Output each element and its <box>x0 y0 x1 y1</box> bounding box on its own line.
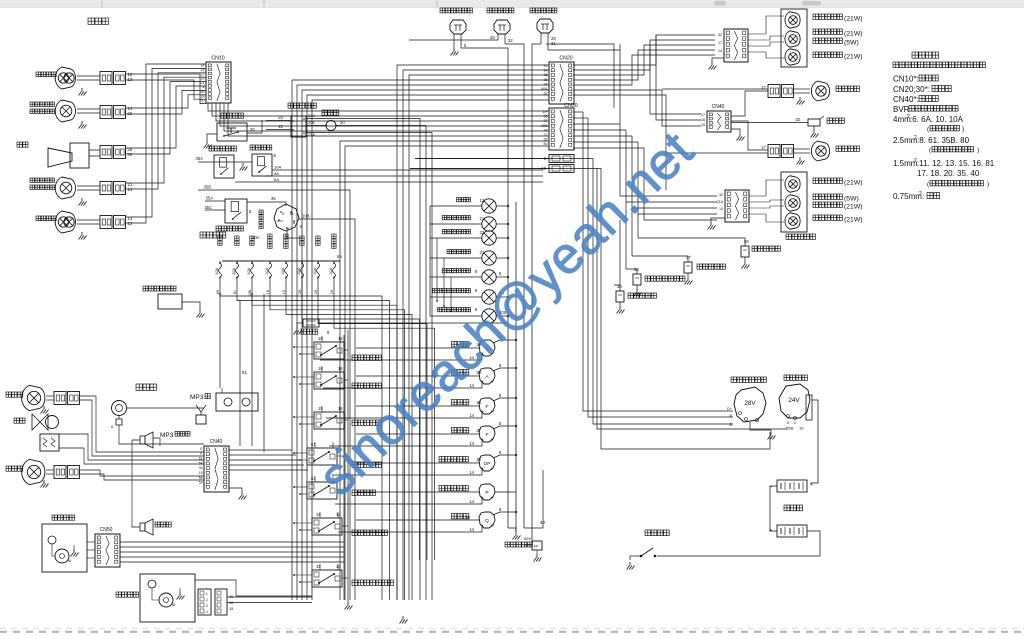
svg-text:61: 61 <box>233 290 237 294</box>
label left-front-headlamp <box>36 216 56 221</box>
gauge 6 <box>479 484 495 500</box>
wire 35 relay to ignition <box>247 196 286 206</box>
svg-text:38: 38 <box>476 457 481 462</box>
wire horn-button-30 <box>247 120 262 133</box>
lamp left-front-headlamp <box>55 211 100 233</box>
connector work-bottom <box>54 466 80 479</box>
wire number gauge 1 <box>476 342 481 347</box>
svg-text:31: 31 <box>551 41 556 46</box>
svg-text:14: 14 <box>338 366 343 371</box>
wire numbers switch 2 <box>318 366 343 371</box>
svg-text:61: 61 <box>311 442 316 447</box>
svg-text:6A: 6A <box>274 177 279 182</box>
fan <box>32 414 59 430</box>
svg-text:15: 15 <box>318 406 323 411</box>
wire fuse rail <box>222 254 342 261</box>
pin numbers 21/14 <box>128 182 133 192</box>
air pressure alarm <box>524 541 542 550</box>
svg-text:14: 14 <box>719 207 723 211</box>
pin numbers 12/13 <box>128 72 133 82</box>
label generator <box>731 377 766 382</box>
fan resistor <box>40 434 59 451</box>
label switch 4 <box>352 462 381 467</box>
svg-text:28V: 28V <box>744 400 756 407</box>
label rear-wiper <box>116 592 139 597</box>
svg-text:28: 28 <box>490 35 495 40</box>
CN40r pin numbers <box>701 113 705 127</box>
svg-text:61: 61 <box>242 370 248 375</box>
svg-text:14: 14 <box>544 69 548 73</box>
label key-switch <box>259 210 263 229</box>
indicator lamp 2 <box>482 217 496 231</box>
wire 10A row <box>272 165 543 171</box>
label work-lamp-top <box>6 392 23 397</box>
fuses <box>215 261 336 297</box>
ground right-front-turn <box>79 121 87 129</box>
svg-text:4: 4 <box>206 610 208 614</box>
wire number gauge 2 <box>476 370 481 375</box>
svg-text:ACC: ACC <box>277 219 284 223</box>
svg-text:54: 54 <box>199 476 203 480</box>
svg-text:17: 17 <box>761 145 766 150</box>
wire bundle rear wiper to switch <box>195 580 312 603</box>
wire relay row <box>198 161 252 163</box>
left-rear combo box <box>781 172 807 232</box>
label gauge 6 <box>439 486 468 491</box>
cigar lighter <box>303 319 319 327</box>
svg-text:+: + <box>769 528 772 534</box>
svg-text:CN50: CN50 <box>100 527 113 533</box>
label electronic-ground-switch <box>143 286 176 291</box>
svg-text:20A: 20A <box>247 268 251 275</box>
label indicator 3 <box>442 230 470 234</box>
svg-text:CN40: CN40 <box>712 104 725 110</box>
technical notes text <box>893 52 995 201</box>
speaker left <box>140 519 153 535</box>
right-rear combo box <box>781 9 807 67</box>
sensor fuel <box>614 284 625 314</box>
svg-text:17: 17 <box>701 113 705 117</box>
wire number gauge 3 <box>476 400 481 405</box>
label 8 charge <box>475 288 478 293</box>
svg-text:15: 15 <box>199 471 203 475</box>
flasher <box>325 121 337 131</box>
ground horn-button <box>204 141 212 149</box>
ground switch column <box>345 602 353 610</box>
pin numbers 28/30 <box>128 147 133 157</box>
svg-text:31: 31 <box>544 64 548 68</box>
label horn <box>17 142 28 147</box>
svg-text:38: 38 <box>544 128 548 132</box>
label work-lamp-bottom <box>6 466 23 471</box>
label left-rear-combo <box>786 234 815 239</box>
svg-text:16: 16 <box>229 601 233 605</box>
wire 35A mid <box>205 196 225 202</box>
connector CN40-cab <box>204 439 229 492</box>
lamp work-bottom <box>22 459 54 484</box>
svg-text::8. 61. 35B. 80: :8. 61. 35B. 80 <box>917 136 970 145</box>
lamp right-front-turn/width <box>55 100 100 122</box>
switch mid 7 <box>312 570 342 587</box>
label 8 neutral <box>249 209 252 214</box>
svg-text:KP: KP <box>534 545 539 549</box>
label MP3 <box>190 394 210 402</box>
lamp left-rear-width <box>785 195 800 212</box>
label fuse-box <box>200 232 226 238</box>
bottom page edge dashes <box>0 629 1024 632</box>
connector right-rear-headlamp <box>768 85 794 98</box>
svg-text:16: 16 <box>701 118 705 122</box>
indicator lamp 6 <box>482 290 496 304</box>
svg-text:35B: 35B <box>204 185 212 190</box>
label 40S at airpressure indicator <box>499 310 507 315</box>
svg-text:15A: 15A <box>297 268 301 275</box>
label battery <box>784 505 803 511</box>
wire CN40r to right headlamp <box>731 91 768 116</box>
pin labels right-rear conn <box>718 33 722 53</box>
wire number indicator 1 <box>480 198 485 203</box>
fuse name labels <box>218 234 336 248</box>
ground alarm <box>534 550 542 562</box>
wire numbers switch 7 <box>316 564 341 569</box>
label speaker-left <box>155 522 171 527</box>
wire bundle worklamps to CN40b <box>59 396 204 480</box>
label 35B 10 <box>786 426 804 431</box>
svg-text:10: 10 <box>799 426 804 431</box>
svg-text:40: 40 <box>465 515 470 520</box>
wire bundle fuse outputs <box>220 278 435 601</box>
svg-text:15: 15 <box>229 607 233 611</box>
svg-text:10A: 10A <box>313 268 317 275</box>
svg-text:OP: OP <box>484 461 491 467</box>
label switch 3 <box>352 420 381 425</box>
svg-text:): ) <box>962 126 964 133</box>
wire 22A <box>306 113 420 600</box>
svg-text:14: 14 <box>338 406 343 411</box>
wire beeper <box>731 117 808 123</box>
label beeper <box>827 118 844 123</box>
svg-text:P: P <box>485 490 488 496</box>
ground left-rear-headlamp <box>797 157 805 165</box>
sensor water-temp <box>632 255 693 285</box>
wire ground-switch <box>182 302 200 310</box>
svg-text:15: 15 <box>316 564 321 569</box>
svg-text:37: 37 <box>544 133 548 137</box>
wire numbers switch 1 <box>318 336 343 341</box>
ground work-bottom <box>41 480 49 488</box>
label right-rear-headlamp <box>836 86 859 91</box>
svg-text:CN30: CN30 <box>564 103 577 109</box>
wire number indicator 2 <box>480 216 485 221</box>
ground rear wiper <box>177 588 185 600</box>
gauge 5 <box>479 455 495 471</box>
wire combo feeds LR <box>749 180 784 222</box>
svg-text:2: 2 <box>206 598 208 602</box>
svg-text:6: 6 <box>111 425 113 429</box>
svg-text:28: 28 <box>298 290 302 294</box>
svg-text:6A: 6A <box>274 171 279 176</box>
label cab <box>136 384 156 390</box>
svg-text:BVR: BVR <box>893 105 910 114</box>
wire bundle CN40b to right <box>229 450 308 470</box>
label gauge 2 <box>451 370 468 375</box>
label indicator 2 <box>442 216 470 220</box>
label oil-level-sensor <box>752 246 780 251</box>
browser top bar <box>0 0 1024 8</box>
svg-text:37: 37 <box>476 428 481 433</box>
label fuel-sensor <box>628 293 656 298</box>
label cigar-lighter <box>301 329 330 335</box>
relay neutral <box>225 199 247 223</box>
wire gauge 3 <box>326 393 517 418</box>
svg-text:18: 18 <box>318 366 323 371</box>
wire gauge 6 <box>335 492 516 504</box>
connector right-rear 8pin <box>724 29 748 62</box>
label fan <box>14 418 25 423</box>
label brake-lamp-switch <box>530 8 557 13</box>
svg-text:18: 18 <box>318 336 323 341</box>
svg-text:36: 36 <box>544 115 548 119</box>
wire bundle switch column <box>293 330 348 602</box>
label 40 at airpressure gauge <box>465 515 470 520</box>
svg-text:36: 36 <box>744 239 749 244</box>
svg-text:10A: 10A <box>329 268 333 275</box>
svg-text:14: 14 <box>469 441 474 446</box>
CN20 pin numbers <box>541 64 548 96</box>
connector left-rear-headlamp <box>768 145 794 158</box>
svg-text:(21W): (21W) <box>844 16 863 23</box>
label knife-switch <box>645 530 669 536</box>
svg-text:38: 38 <box>634 267 639 272</box>
svg-text:(5W): (5W) <box>844 196 859 203</box>
label D+ at charge indicator <box>499 291 505 296</box>
lamp left-rear-turn <box>785 213 800 230</box>
label right-rear-brake-lamp <box>813 29 863 38</box>
svg-text:30: 30 <box>128 152 133 157</box>
label reverse-lamp-switch <box>487 8 514 13</box>
wire numbers switch 4 <box>311 442 316 447</box>
ground mid-bottom <box>400 616 408 624</box>
ground left-front-width <box>79 198 87 206</box>
svg-text:37: 37 <box>686 255 691 260</box>
svg-text:CN10*:: CN10*: <box>893 75 919 84</box>
svg-text:12: 12 <box>128 221 133 226</box>
wire 10B from ignition <box>299 214 355 601</box>
gauge 7 <box>479 512 495 528</box>
svg-text:36: 36 <box>476 400 481 405</box>
key buzzer <box>111 401 127 430</box>
svg-text:50: 50 <box>544 142 548 146</box>
wire number gauge 5 <box>476 457 481 462</box>
svg-text:13: 13 <box>128 77 133 82</box>
wiper motor front <box>48 536 71 563</box>
svg-text:21A: 21A <box>717 200 724 204</box>
svg-text:40A: 40A <box>541 87 548 91</box>
svg-text:35C: 35C <box>204 205 212 210</box>
svg-text:MP3: MP3 <box>160 432 174 439</box>
switch mid 6 <box>312 518 342 535</box>
label gauge 7 <box>451 514 468 519</box>
ground cigar <box>294 323 304 335</box>
wire gauge 5 <box>332 450 517 475</box>
rear wiper box <box>140 574 195 622</box>
svg-text:10B: 10B <box>302 214 310 219</box>
wire RRH feed <box>662 88 768 90</box>
label 5 at parking indicator <box>499 271 502 276</box>
generator 28V <box>727 387 766 427</box>
wire 6A row1 <box>265 171 543 176</box>
label switch 1 <box>352 355 381 360</box>
svg-text:14: 14 <box>338 336 343 341</box>
wire gauge 1 <box>320 335 517 360</box>
svg-text:M: M <box>172 603 175 607</box>
ground right-front-headlamp <box>79 88 87 96</box>
wire 28 from reverse switch <box>409 35 498 40</box>
label parking-brake-lamp-switch <box>440 8 472 13</box>
wire starter B+ to battery <box>810 400 818 483</box>
label oil-pressure-sensor <box>645 276 685 281</box>
indicator lamp 4 <box>482 251 496 265</box>
switch electronic-ground <box>158 294 182 309</box>
wire bundle to left-rear connector <box>620 124 717 220</box>
wire battery2 to knife <box>657 531 820 556</box>
svg-text:17: 17 <box>718 41 722 45</box>
switch mid 3 <box>314 412 344 429</box>
wire 10 left <box>410 168 549 170</box>
lamp left-rear-headlamp <box>794 141 830 161</box>
pin labels left-rear conn <box>717 193 724 211</box>
label right-rear-turn-lamp <box>813 14 863 23</box>
label indicator 4 <box>447 250 471 254</box>
connector CN40-rear <box>707 104 731 132</box>
svg-text:35: 35 <box>271 196 276 201</box>
wire CN40r to left headlamp <box>731 121 768 150</box>
svg-text:38: 38 <box>544 82 548 86</box>
wire bundle CN right to rear <box>573 35 715 190</box>
wire numbers switch 3 <box>318 406 343 411</box>
svg-text:15A: 15A <box>281 268 285 275</box>
sensor oil-pressure <box>626 267 642 297</box>
ground beeper <box>811 126 819 138</box>
svg-text:15: 15 <box>316 512 321 517</box>
CN40b pin letters <box>199 447 204 485</box>
wire bundle indicators <box>430 205 509 317</box>
svg-text:29: 29 <box>330 290 334 294</box>
CN10 pin numbers <box>201 64 205 103</box>
label 8 airpressure <box>475 307 478 312</box>
label front-frame <box>88 18 108 24</box>
wire 8 from ignition <box>287 224 303 238</box>
wire gauge 4 <box>329 421 517 446</box>
wiper motor rear <box>148 580 175 607</box>
wire number indicator 3 <box>480 230 485 235</box>
svg-text:D+: D+ <box>543 110 548 114</box>
connector horn <box>100 146 126 159</box>
label MP3-antenna <box>160 432 190 440</box>
switch turn-lamp <box>291 116 306 137</box>
horn FL <box>48 143 100 168</box>
beeper <box>808 116 824 126</box>
switch brake-lamp <box>537 19 553 50</box>
connector CN10 <box>206 56 231 104</box>
wire 22 into turn switch <box>266 115 291 121</box>
wire horn-button-left <box>207 134 217 141</box>
label 10A fusebox <box>252 235 260 240</box>
wire gauge 2 <box>323 363 517 388</box>
label gauge 1 <box>451 342 468 347</box>
relay horn-button <box>217 123 247 141</box>
wire numbers switch 5 <box>311 476 316 481</box>
wire 40 riser <box>524 470 546 528</box>
svg-text:+: + <box>810 482 813 488</box>
svg-text:F: F <box>486 432 489 438</box>
wire bundle CN50 right <box>120 542 344 562</box>
lamp right-front-headlamp <box>55 67 100 89</box>
svg-text:17. 18. 20. 35. 40: 17. 18. 20. 35. 40 <box>917 169 980 178</box>
wire 6 left <box>415 158 549 160</box>
wire bundle sensor risers <box>620 202 638 285</box>
svg-text:14: 14 <box>128 187 133 192</box>
label 8 solenoid <box>274 153 277 158</box>
connector work-top <box>54 392 80 405</box>
svg-text:18: 18 <box>266 290 270 294</box>
MP3 unit <box>216 388 258 411</box>
connector right-front-headlamp <box>100 72 126 85</box>
label starter <box>784 375 807 380</box>
ground front wiper <box>71 545 79 557</box>
wire combo feeds RR <box>748 16 784 58</box>
svg-text:14: 14 <box>469 499 474 504</box>
label 17 LRH <box>761 145 766 150</box>
svg-text:10A: 10A <box>274 165 281 170</box>
svg-text:61: 61 <box>199 457 203 461</box>
svg-text:): ) <box>977 147 979 154</box>
ground right-rear conn <box>709 58 725 70</box>
label indicator 5 <box>442 269 470 273</box>
connector CN30 <box>549 103 578 150</box>
wire 21A <box>306 132 432 600</box>
label water-temp-sensor <box>697 264 725 269</box>
connector CN50 <box>95 527 120 567</box>
ground left-front-headlamp <box>79 232 87 240</box>
relay start <box>214 155 234 178</box>
label start-relay <box>209 146 236 151</box>
ground work-top <box>41 406 49 414</box>
svg-text:CN10: CN10 <box>211 56 224 62</box>
label left-rear-headlamp <box>836 146 859 151</box>
label gauge 3 <box>451 400 468 405</box>
svg-text:21: 21 <box>278 124 283 129</box>
relay solenoid-switch <box>252 154 272 176</box>
generator ground <box>750 422 776 440</box>
svg-text:58: 58 <box>199 461 203 465</box>
lamp right-rear-turn <box>785 12 800 29</box>
svg-text:Q: Q <box>485 518 489 524</box>
svg-text:39: 39 <box>617 284 622 289</box>
MP3 antenna <box>196 405 206 424</box>
label gauge 5 <box>439 457 468 462</box>
svg-text:15: 15 <box>701 123 705 127</box>
lamp right-rear-headlamp <box>794 81 830 101</box>
wire LRH feed <box>666 152 768 154</box>
svg-text:(21W): (21W) <box>844 217 863 224</box>
lamp right-rear-reverse <box>785 49 800 66</box>
lamp left-front-width/turn <box>55 177 100 199</box>
svg-text:0.75mm: 0.75mm <box>893 192 922 201</box>
svg-text:40: 40 <box>540 520 546 525</box>
svg-text:32: 32 <box>719 193 723 197</box>
wire bundle lamps to CN10 <box>126 64 206 223</box>
